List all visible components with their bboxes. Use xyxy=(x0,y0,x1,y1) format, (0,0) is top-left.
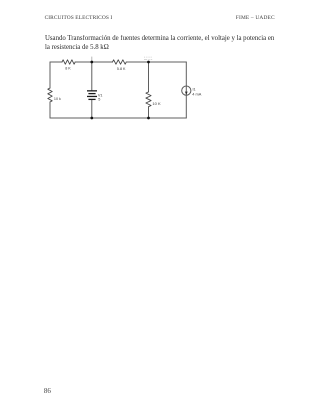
node junction top-right (10K branch) xyxy=(147,61,150,64)
resistor 8 K (zigzag) xyxy=(62,60,75,64)
current source I1 circle xyxy=(182,86,191,95)
svg-text:4 mA: 4 mA xyxy=(192,91,201,96)
wire current source branch xyxy=(185,62,187,118)
node junction bottom-left (battery branch) xyxy=(90,117,93,120)
wire left lower segment xyxy=(49,102,51,118)
wire 10K branch upper xyxy=(148,62,150,92)
svg-text:10 k: 10 k xyxy=(54,97,61,101)
wire top-middle segment (8K to 5.8K through node) xyxy=(75,61,112,63)
wire battery branch upper xyxy=(91,62,93,90)
wire 10K branch lower xyxy=(148,107,150,118)
wire bottom segment xyxy=(50,117,186,119)
wire left upper segment xyxy=(49,62,51,88)
wire top-left segment xyxy=(50,61,62,63)
wire battery branch lower xyxy=(91,100,93,118)
wire top-right segment xyxy=(126,61,186,63)
resistor 10 k left (zigzag) xyxy=(48,88,52,102)
resistor 10 K right (zigzag) xyxy=(146,92,151,107)
node junction bottom-right (10K branch) xyxy=(147,117,150,120)
svg-text:8 K: 8 K xyxy=(65,66,71,70)
resistor 5.8 K (zigzag) xyxy=(113,60,127,64)
current source arrowhead xyxy=(185,92,188,95)
node junction top-left (battery branch) xyxy=(90,61,93,64)
svg-text:5: 5 xyxy=(98,98,100,102)
wire faint stub above battery node xyxy=(91,57,93,62)
faint ghost marks above 10K node xyxy=(144,57,152,60)
svg-text:10 K: 10 K xyxy=(152,101,161,106)
svg-text:5.8 K: 5.8 K xyxy=(117,67,126,71)
battery V1 plates xyxy=(87,91,97,100)
